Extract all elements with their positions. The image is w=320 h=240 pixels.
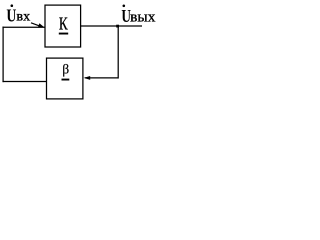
dot above input U bbox=[11, 4, 14, 7]
underline under K bbox=[59, 33, 68, 35]
arrowhead into beta (pointing left) bbox=[84, 76, 91, 80]
dot above output U bbox=[123, 5, 126, 8]
wire left vertical feedback return bbox=[2, 27, 4, 83]
block beta (feedback box) bbox=[47, 58, 83, 99]
background bbox=[0, 0, 156, 102]
svg-text:U: U bbox=[6, 6, 16, 26]
wire feedback into beta bbox=[85, 77, 118, 79]
arrowhead of input leader (pointing right-down into K) bbox=[38, 23, 45, 27]
wire right vertical from junction bbox=[117, 26, 119, 79]
wire output horizontal bbox=[81, 25, 142, 27]
wire input horizontal bbox=[2, 26, 45, 28]
svg-text:β: β bbox=[62, 62, 69, 77]
arrow leader from input label bbox=[31, 23, 40, 26]
underline under beta bbox=[62, 79, 70, 81]
node junction dot on output bbox=[116, 25, 119, 28]
wire bottom left to beta input bbox=[2, 81, 46, 83]
svg-text:К: К bbox=[59, 14, 69, 34]
block K (forward gain box) bbox=[45, 5, 81, 47]
svg-text:вых: вых bbox=[130, 10, 156, 26]
svg-text:вх: вх bbox=[16, 9, 30, 24]
